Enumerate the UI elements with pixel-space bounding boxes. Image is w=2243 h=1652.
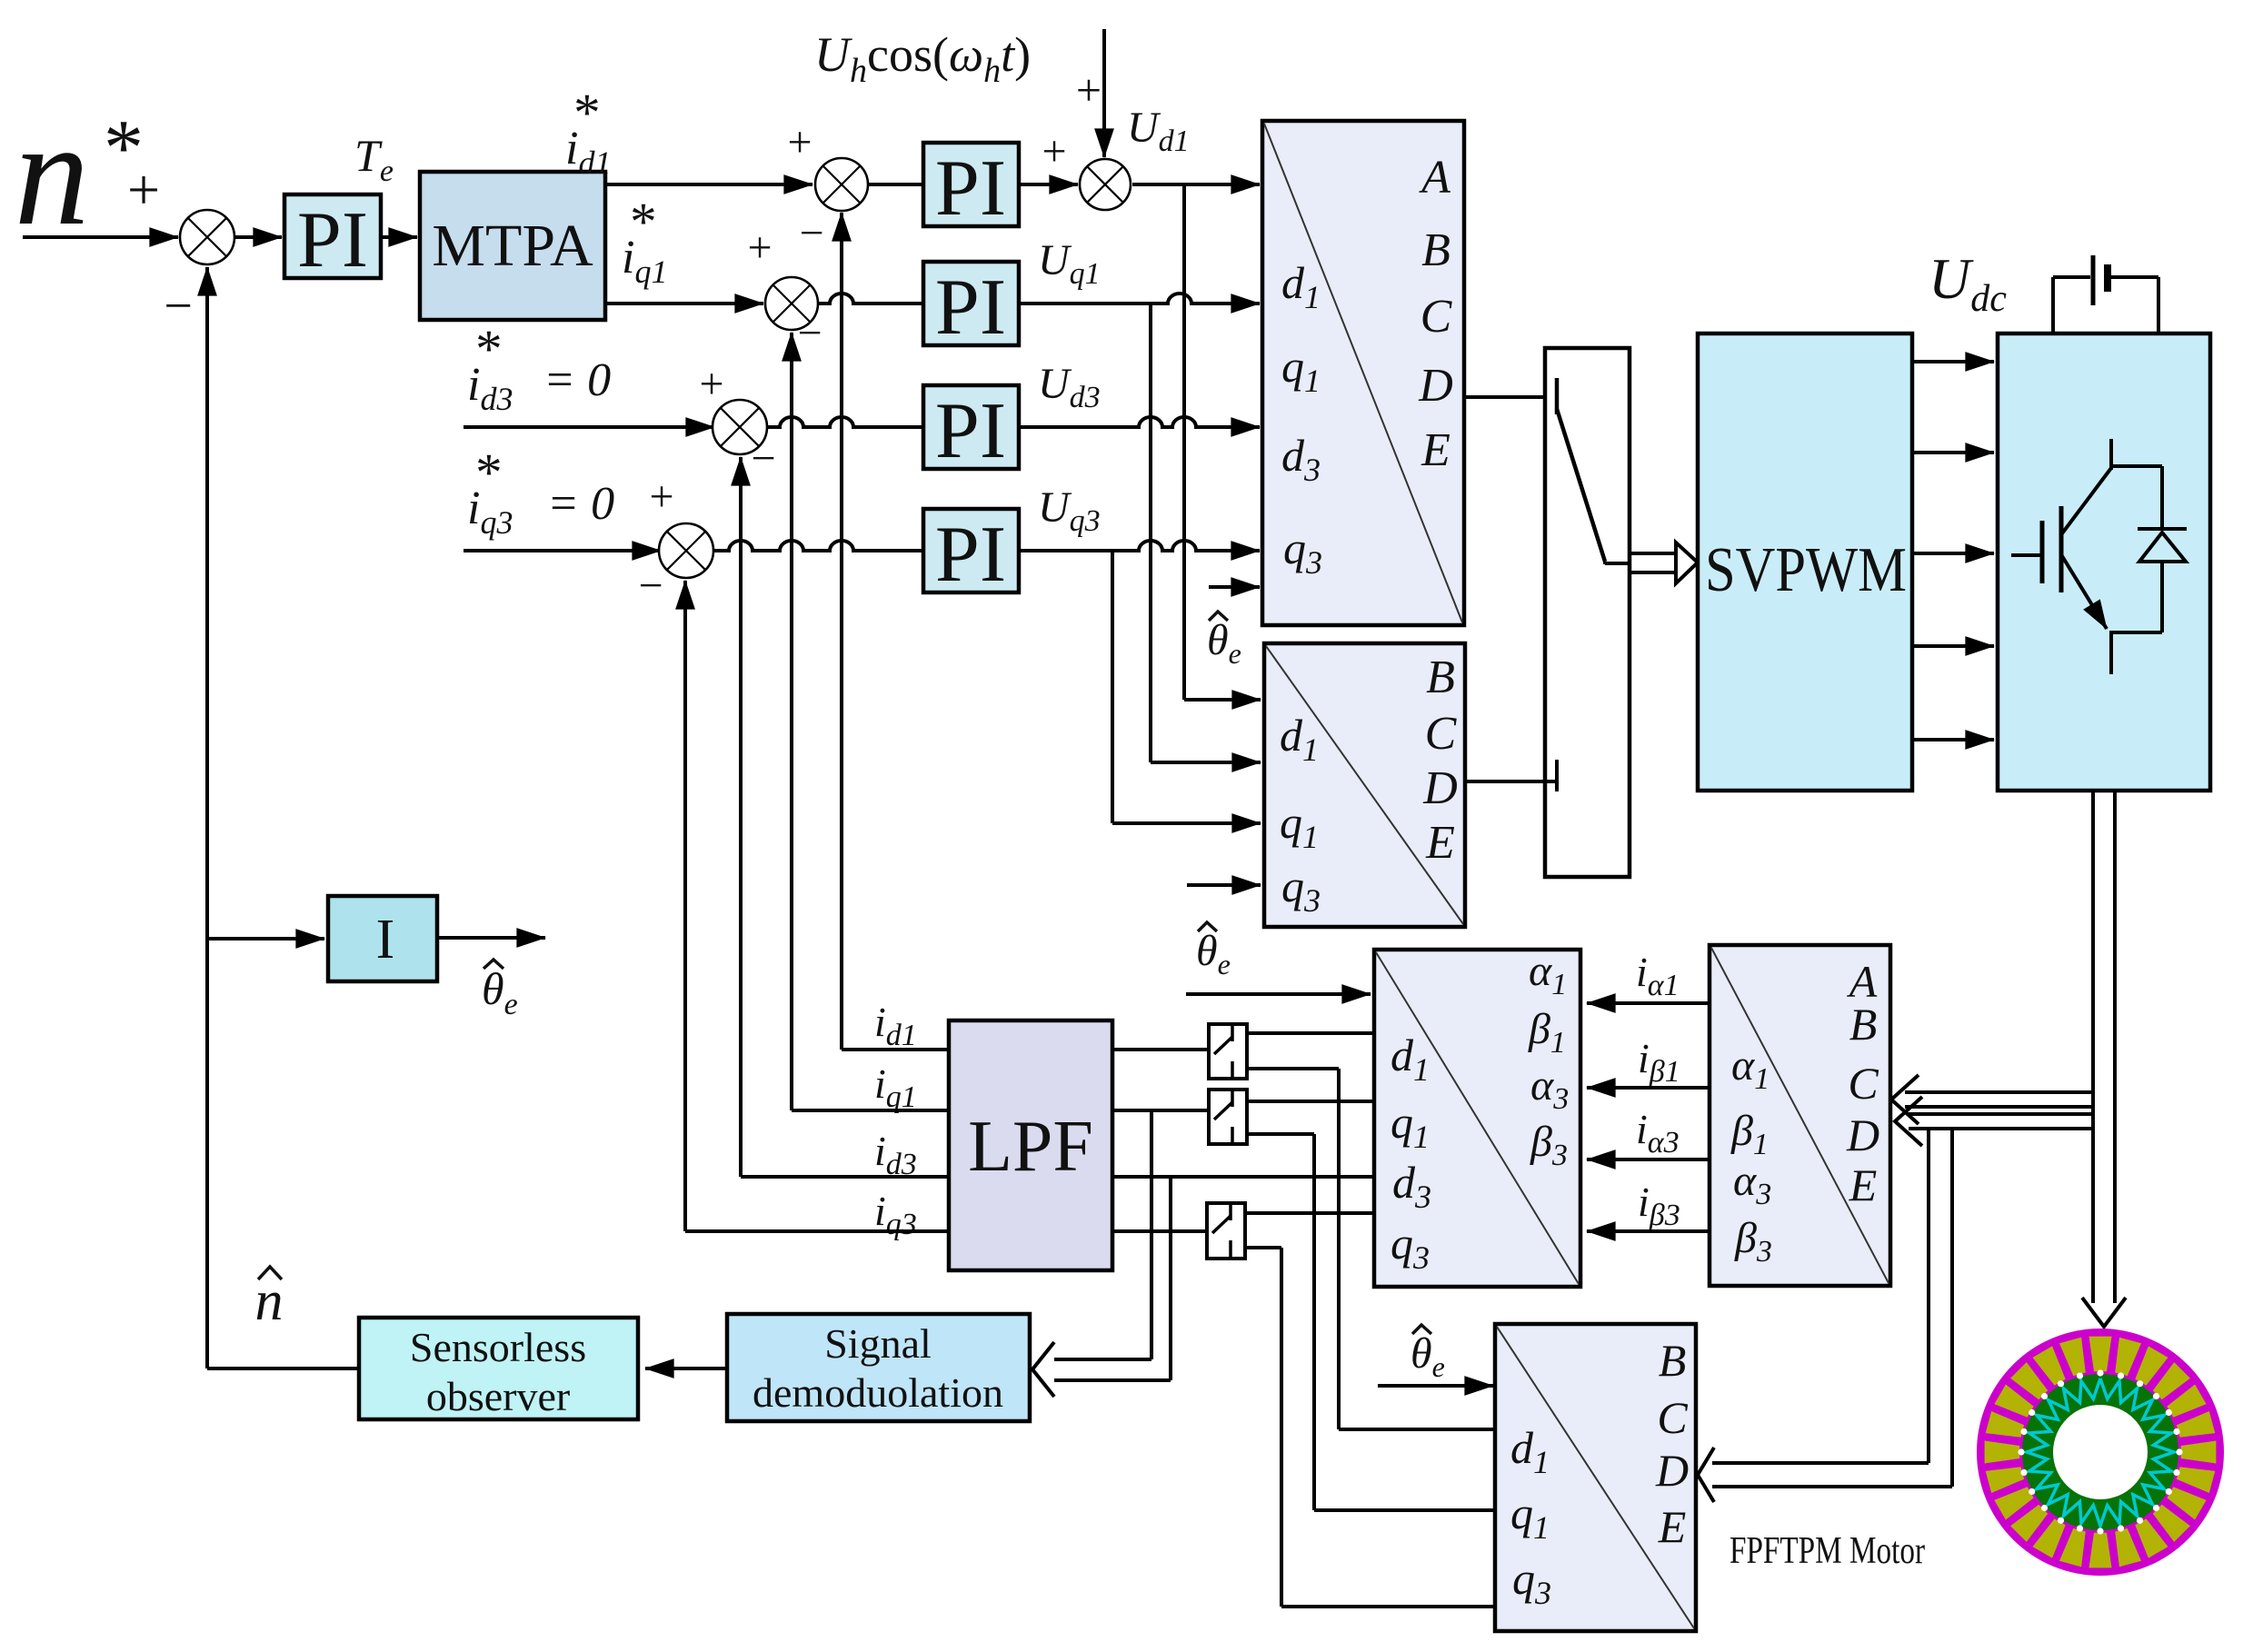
wire igbt top node bbox=[2111, 464, 2162, 468]
wire i_d3 feedback bbox=[741, 1175, 949, 1179]
battery right wire bbox=[2111, 275, 2158, 279]
svg-text:Signal: Signal bbox=[824, 1320, 932, 1367]
wire PI5 to transform T1 q3 bbox=[1019, 541, 1260, 551]
diode cathode bar bbox=[2138, 527, 2187, 531]
bus inverter to motor vertical pair bbox=[2091, 791, 2095, 1303]
wire i_beta1 bbox=[1587, 1086, 1710, 1090]
contact switch bottom bbox=[1555, 760, 1559, 791]
svg-text:E: E bbox=[1849, 1159, 1878, 1210]
battery long plate bbox=[2091, 255, 2096, 305]
svg-text:B: B bbox=[1426, 652, 1455, 703]
label i*d3 = 0 bbox=[467, 319, 513, 417]
wire T3 d3 out to LPF bbox=[1112, 1175, 1374, 1179]
label Uq1 bbox=[1038, 236, 1101, 291]
wire tap to T5 q1 bbox=[1314, 1508, 1495, 1512]
wire tap to T5 d1 bbox=[1339, 1428, 1495, 1431]
wire J4 to PI3 (hop over id1 fb) bbox=[818, 294, 923, 304]
label Uq3 bbox=[1038, 483, 1101, 538]
igbt emitter with arrow bbox=[2062, 556, 2107, 629]
svg-text:PI: PI bbox=[297, 196, 368, 284]
label Ud3 bbox=[1038, 360, 1101, 414]
diode triangle bbox=[2139, 532, 2186, 562]
label theta_e at I output bbox=[482, 960, 518, 1021]
block T3 Park alphabeta to d1q1d3q3 bbox=[1374, 950, 1580, 1287]
wire Uq1 branch down bbox=[1149, 304, 1152, 762]
summing junction J6 (iq3 error) bbox=[659, 523, 713, 578]
block PI1 speed regulator bbox=[284, 194, 381, 278]
svg-text:+: + bbox=[787, 118, 812, 166]
wire demod to observer bbox=[645, 1367, 727, 1370]
block PI2 (id1) bbox=[923, 143, 1019, 226]
wire iq3* input to J6 bbox=[464, 549, 661, 552]
bus branch to T4 lower pair bbox=[1909, 1112, 2093, 1116]
svg-text:B: B bbox=[1849, 999, 1878, 1050]
svg-text:*: * bbox=[573, 83, 601, 143]
svg-text:A: A bbox=[1419, 152, 1450, 204]
wire PI2 to J3 bbox=[1019, 183, 1078, 186]
label theta_e between T2 T3 bbox=[1196, 922, 1231, 980]
wire switch A tap down bbox=[1247, 1067, 1339, 1070]
label i_d1 bbox=[874, 999, 917, 1052]
wire SVPWM gate signal 3 bbox=[1912, 552, 1994, 555]
svg-text:+: + bbox=[649, 473, 673, 521]
lever switch bbox=[1557, 409, 1605, 562]
wire Uq3 branch down bbox=[1111, 551, 1114, 823]
wire switch C to LPF row4 bbox=[1112, 1229, 1207, 1233]
svg-text:C: C bbox=[1848, 1058, 1879, 1109]
svg-text:*: * bbox=[475, 443, 503, 503]
summing junction J1 (speed error) bbox=[180, 210, 234, 264]
summing junction J2 (id1 error) bbox=[815, 158, 868, 211]
svg-text:+: + bbox=[699, 360, 723, 408]
bus vertical pair to T5 bbox=[1927, 1129, 1930, 1463]
label Te bbox=[354, 130, 394, 188]
svg-text:+: + bbox=[747, 224, 772, 272]
wire igbt bottom node bbox=[2111, 631, 2162, 634]
wire branch to I block bbox=[207, 937, 324, 940]
igbt collector bbox=[2062, 468, 2111, 533]
wire J1 to PI1 bbox=[234, 235, 282, 239]
svg-text:−: − bbox=[751, 434, 775, 483]
svg-text:+: + bbox=[1076, 65, 1102, 115]
svg-text:observer: observer bbox=[426, 1373, 570, 1419]
svg-text:= 0: = 0 bbox=[547, 478, 614, 530]
bus into T5 horizontal pair bbox=[1712, 1461, 1929, 1465]
label i_beta1 bbox=[1638, 1035, 1680, 1089]
block PI5 (iq3) bbox=[923, 509, 1019, 592]
wire MTPA id1* to J2 bbox=[605, 183, 812, 186]
block switch selector box bbox=[1545, 348, 1630, 877]
svg-text:D: D bbox=[1655, 1445, 1689, 1496]
wire SVPWM gate signal 2 bbox=[1912, 451, 1994, 454]
wire switch A to LPF row1 bbox=[1112, 1048, 1209, 1051]
svg-text:C: C bbox=[1425, 708, 1458, 760]
svg-text:*: * bbox=[630, 192, 657, 252]
wire T3 q3 out to switch C bbox=[1245, 1211, 1374, 1215]
block T4 Clarke ABCDE to alpha1beta1alpha3beta3 bbox=[1710, 945, 1890, 1286]
label i*q1 bbox=[622, 192, 667, 290]
wire switch B tap down bbox=[1247, 1132, 1314, 1136]
wire observer to feedback column bbox=[207, 1367, 359, 1370]
svg-text:I: I bbox=[376, 909, 395, 970]
wire tap to T5 q3 bbox=[1281, 1605, 1495, 1608]
svg-text:C: C bbox=[1657, 1392, 1688, 1443]
diode branch lower bbox=[2160, 562, 2164, 632]
wire i_alpha1 bbox=[1587, 1001, 1710, 1005]
svg-text:demoduolation: demoduolation bbox=[753, 1369, 1003, 1416]
wire i_alpha3 bbox=[1587, 1158, 1710, 1161]
wire theta_e stub into T2 bbox=[1187, 883, 1261, 887]
wire SVPWM gate signal 5 bbox=[1912, 738, 1994, 741]
label i_beta3 bbox=[1638, 1179, 1680, 1232]
battery left wire bbox=[2051, 277, 2055, 335]
svg-text:PI: PI bbox=[935, 511, 1006, 599]
svg-text:−: − bbox=[799, 209, 823, 257]
wire switch B to LPF row2 bbox=[1112, 1109, 1209, 1112]
svg-text:E: E bbox=[1425, 817, 1455, 869]
wire i_q3 feedback bbox=[685, 1229, 949, 1233]
label i*d1 bbox=[565, 83, 611, 181]
svg-text:MTPA: MTPA bbox=[432, 213, 593, 279]
wire i_q1 feedback bbox=[792, 1109, 949, 1112]
igbt gate lead bbox=[2011, 553, 2040, 557]
block T1 rotation transform d1q1d3q3 to ABCDE bbox=[1262, 121, 1464, 625]
wire Ud1 branch down bbox=[1182, 184, 1186, 700]
diode branch upper bbox=[2160, 466, 2164, 529]
label theta_e for T5 bbox=[1411, 1325, 1445, 1383]
wire J5 to PI4 (hops) bbox=[767, 417, 923, 427]
label i*q3 = 0 bbox=[467, 443, 513, 541]
wire J2 to PI2 bbox=[868, 183, 923, 186]
svg-text:FPFTPM Motor: FPFTPM Motor bbox=[1730, 1530, 1925, 1572]
block LPF bbox=[949, 1020, 1112, 1270]
label i_alpha1 bbox=[1636, 949, 1680, 1002]
svg-text:+: + bbox=[127, 157, 160, 222]
block PI4 (id3) bbox=[923, 385, 1019, 469]
bus branch to T4 upper pair bbox=[1905, 1090, 2093, 1094]
wire theta_e into T3 bbox=[1186, 992, 1371, 996]
svg-text:Sensorless: Sensorless bbox=[410, 1324, 586, 1370]
wire SVPWM gate signal 1 bbox=[1912, 360, 1994, 363]
svg-text:D: D bbox=[1422, 762, 1458, 814]
bus motor arrowhead bbox=[2082, 1298, 2126, 1327]
svg-text:n: n bbox=[15, 90, 90, 256]
block inverter bbox=[1998, 333, 2210, 791]
svg-text:−: − bbox=[797, 309, 822, 357]
block PI3 (iq1) bbox=[923, 262, 1019, 345]
block demux switch B bbox=[1209, 1090, 1247, 1144]
block SVPWM bbox=[1698, 333, 1912, 791]
svg-text:C: C bbox=[1421, 291, 1453, 343]
wire injection vertical into J3 bbox=[1102, 29, 1106, 157]
wire T3 d1 out to switch A bbox=[1247, 1031, 1374, 1035]
svg-text:*: * bbox=[475, 319, 503, 379]
wire open arrow switch to SVPWM bbox=[1603, 562, 1607, 564]
block demux switch A bbox=[1209, 1024, 1247, 1079]
igbt body bar bbox=[2059, 506, 2064, 592]
summing junction J4 (iq1 error) bbox=[765, 277, 818, 330]
bus HF into demod bbox=[1054, 1358, 1151, 1361]
label Udc bbox=[1929, 246, 2007, 320]
wire i_beta3 bbox=[1587, 1229, 1710, 1233]
wire n* input bbox=[23, 235, 178, 239]
summing junction J5 (id3 error) bbox=[713, 400, 767, 454]
svg-text:−: − bbox=[164, 278, 193, 334]
motor FPFTPM cross-section bbox=[1977, 1329, 2224, 1576]
wire MTPA iq1* to J4 bbox=[605, 302, 763, 305]
svg-text:D: D bbox=[1418, 360, 1453, 412]
battery short plate bbox=[2104, 264, 2111, 292]
svg-text:+: + bbox=[1042, 127, 1066, 175]
contact switch top bbox=[1555, 378, 1560, 414]
block MTPA bbox=[420, 172, 605, 320]
wire PI4 to transform T1 d3 bbox=[1019, 417, 1260, 427]
label i_q1 bbox=[874, 1060, 917, 1114]
wire J6 to PI5 (hops) bbox=[713, 541, 923, 551]
wire T2 output to switch bbox=[1465, 780, 1556, 783]
wire switch C tap down bbox=[1245, 1246, 1281, 1249]
label theta_e for T1 bbox=[1207, 612, 1241, 670]
wire I output theta_e bbox=[437, 936, 545, 940]
block sensorless observer bbox=[359, 1318, 638, 1419]
block demux switch C bbox=[1207, 1203, 1245, 1259]
wire T3 q1 out to switch B bbox=[1247, 1100, 1374, 1103]
label i_alpha3 bbox=[1636, 1106, 1680, 1159]
svg-text:= 0: = 0 bbox=[543, 354, 611, 406]
svg-text:−: − bbox=[638, 562, 663, 610]
wire feedback column up to J1 bbox=[205, 267, 209, 1368]
svg-text:D: D bbox=[1846, 1110, 1879, 1160]
svg-text:LPF: LPF bbox=[968, 1107, 1093, 1187]
svg-text:B: B bbox=[1659, 1335, 1687, 1386]
wire PI1 to MTPA bbox=[381, 235, 417, 239]
wire J3 to transform T1 d1 bbox=[1132, 183, 1260, 186]
svg-text:E: E bbox=[1421, 424, 1450, 476]
svg-text:PI: PI bbox=[935, 264, 1006, 352]
svg-text:E: E bbox=[1658, 1501, 1687, 1552]
igbt gate bar bbox=[2040, 521, 2045, 583]
bus HF to demod vertical 2 bbox=[1169, 1177, 1172, 1380]
block T5 transform d1q1q3 to BCDE (HF model) bbox=[1495, 1324, 1696, 1631]
wire theta_e stub into T1 bbox=[1209, 585, 1260, 589]
label Ud1 bbox=[1127, 104, 1190, 158]
summing junction J3 (HF injection) bbox=[1080, 159, 1131, 210]
svg-text:B: B bbox=[1421, 224, 1450, 276]
wire SVPWM gate signal 4 bbox=[1912, 644, 1994, 648]
bus HF to demod vertical 1 bbox=[1150, 1110, 1153, 1359]
svg-text:PI: PI bbox=[935, 387, 1006, 475]
wire id3* input to J5 bbox=[464, 425, 714, 429]
label i_q3 bbox=[874, 1188, 917, 1241]
wire theta_e into T5 bbox=[1378, 1384, 1493, 1388]
wire PI3 to transform T1 q1 bbox=[1019, 294, 1260, 304]
svg-text:SVPWM: SVPWM bbox=[1705, 535, 1907, 605]
wire T1 D output to switch bbox=[1464, 395, 1556, 399]
svg-text:PI: PI bbox=[935, 144, 1006, 233]
block I integrator bbox=[328, 896, 437, 981]
wire i_d1 feedback bbox=[842, 1048, 949, 1051]
block T2 transform d1q1q3 to BCDE bbox=[1264, 643, 1465, 927]
block signal demodulation bbox=[727, 1314, 1030, 1421]
label i_d3 bbox=[874, 1128, 917, 1181]
